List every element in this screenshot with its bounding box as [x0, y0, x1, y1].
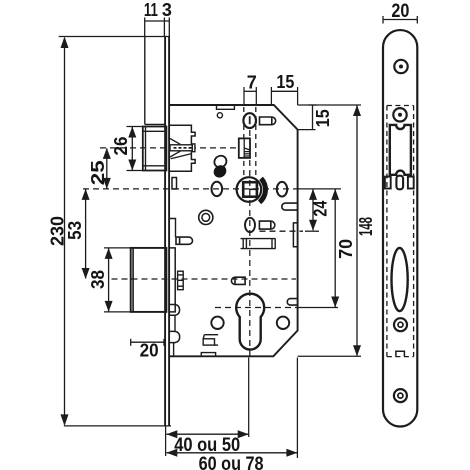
dimension 20 deadbolt: [131, 339, 164, 361]
dimension 53: [65, 189, 90, 279]
dimension 20 faceplate: [383, 1, 417, 24]
faceplate rivet: [172, 178, 177, 190]
keyway slot: [243, 113, 256, 128]
guide bulge lower: [170, 331, 180, 342]
latch bolt head: [143, 127, 167, 171]
dimension 24: [309, 189, 330, 231]
faceplate screw 4: [394, 389, 407, 402]
ribbed stub: [178, 271, 184, 290]
dimension 7 top: [244, 73, 257, 106]
guide stem lower: [173, 343, 175, 357]
rivet slot C: [282, 203, 297, 210]
dimension 40 ou 50: [166, 358, 249, 457]
faceplate front view outline: [383, 30, 417, 426]
svg-text:60 ou 78: 60 ou 78: [199, 454, 264, 470]
hub centerline dashed: [83, 188, 298, 190]
rivet slot E: [231, 277, 245, 284]
rivet slot A: [260, 117, 276, 125]
bottom tab: [201, 353, 215, 357]
svg-text:15: 15: [313, 109, 333, 127]
faceplate side view strip: [145, 37, 169, 426]
svg-text:70: 70: [336, 239, 356, 259]
cylinder oval cutout: [392, 248, 408, 311]
rivet slot B: [259, 221, 274, 229]
dimension 38: [88, 248, 131, 312]
oval hole left of hub: [212, 182, 223, 196]
vertical axis dashed (backset line): [249, 130, 251, 356]
deadbolt centerline dashed: [112, 278, 297, 280]
dimension 70: [331, 189, 356, 308]
cylinder centerline dashed: [215, 307, 298, 309]
svg-text:53: 53: [65, 221, 85, 240]
guide bulge upper: [170, 305, 180, 316]
screw hole right: [277, 317, 289, 329]
lock case outline: [170, 105, 298, 356]
faceplate bottom square notch: [396, 351, 405, 356]
stop component: [239, 138, 250, 158]
hub follower circle: [237, 177, 262, 202]
svg-text:20: 20: [140, 341, 159, 361]
latch centerline dashed: [100, 147, 239, 149]
pawl lever outline: [212, 153, 229, 169]
right edge stop rect: [293, 223, 297, 247]
hidden spindle channel dashed verticals: [243, 107, 245, 178]
hub spring crescent: [258, 177, 268, 205]
svg-text:26: 26: [111, 137, 131, 156]
dimension 148: [353, 105, 376, 356]
small ledge on plate: [170, 219, 176, 238]
deadbolt tail: [170, 248, 176, 312]
dimension 15 top: [271, 72, 297, 105]
screw post double circle: [199, 210, 213, 224]
hub radius line: [249, 188, 257, 190]
euro cylinder profile: [236, 294, 264, 350]
dimension 26: [111, 127, 143, 171]
latch spring assembly: [170, 125, 195, 171]
guide stem: [174, 315, 176, 331]
dimension 11/3 top: [145, 18, 170, 37]
svg-text:148: 148: [356, 217, 376, 236]
screw hole left: [211, 317, 223, 329]
pawl lever filled: [211, 163, 229, 181]
svg-text:25: 25: [88, 160, 108, 185]
faceplate small cutout middle: [396, 176, 403, 190]
dimension 15 right chamfer: [298, 105, 333, 130]
svg-text:15: 15: [276, 72, 294, 92]
dimension 60 ou 78: [166, 358, 297, 470]
dimension 25: [88, 148, 111, 189]
svg-text:7: 7: [247, 73, 257, 93]
faceplate small cutout right: [408, 177, 414, 189]
pin slot near faceplate: [176, 237, 192, 244]
latch cutout: [390, 125, 411, 175]
clip box: [203, 335, 218, 345]
faceplate screw 3: [394, 318, 407, 331]
latch spring rod ticks: [174, 147, 192, 149]
svg-text:38: 38: [88, 270, 108, 289]
small circle below hub: [245, 218, 255, 232]
svg-text:3: 3: [162, 0, 172, 20]
spring bar: [241, 239, 276, 249]
faceplate small cutout left: [385, 177, 391, 189]
small pin circle: [217, 113, 222, 118]
oval hole right of hub: [277, 182, 287, 197]
top edge notch: [217, 105, 235, 109]
rivet slot D: [287, 299, 297, 306]
svg-text:24: 24: [310, 201, 330, 217]
faceplate screw 2: [393, 108, 406, 121]
hidden case dashed rect on faceplate: [387, 106, 414, 357]
dimension 230 left: [48, 37, 172, 426]
svg-text:20: 20: [391, 1, 409, 22]
extension lines right side: [260, 230, 304, 232]
svg-text:11: 11: [144, 0, 158, 20]
deadbolt head: [131, 248, 167, 312]
hub square: [243, 182, 257, 197]
faceplate screw 1: [394, 60, 407, 73]
